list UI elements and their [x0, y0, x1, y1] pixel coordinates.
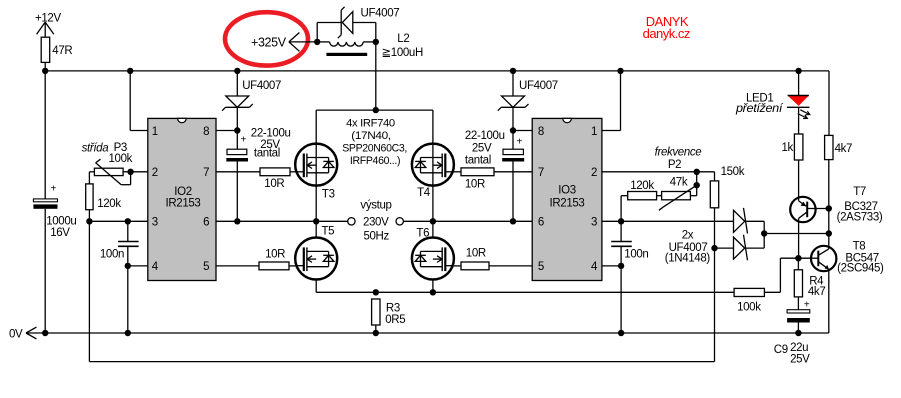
- svg-text:4: 4: [591, 261, 598, 273]
- node pin8-boot3: [510, 127, 516, 133]
- svg-text:T7: T7: [853, 186, 866, 198]
- node T3source-pin6: [313, 218, 319, 224]
- node bus-diode2: [234, 68, 240, 74]
- svg-text:8: 8: [538, 126, 544, 138]
- svg-text:T6: T6: [416, 228, 429, 240]
- resistor R3 0R5: [372, 299, 406, 326]
- svg-text:6: 6: [538, 217, 544, 229]
- wire bus to diode UF4007 (IO2 bootstrap): [236, 71, 238, 96]
- resistor 1k: [782, 134, 803, 160]
- LED1 label: [735, 92, 784, 115]
- node bus-io3pin1: [617, 68, 623, 74]
- wire T8 base row: [780, 257, 811, 259]
- node pin2-P2: [694, 169, 700, 175]
- svg-text:4: 4: [152, 261, 159, 273]
- svg-text:120k: 120k: [97, 198, 121, 210]
- svg-text:22u: 22u: [790, 342, 808, 354]
- wire IO2 pin2: [131, 171, 148, 173]
- svg-text:danyk.cz: danyk.cz: [643, 26, 690, 41]
- svg-text:+12V: +12V: [35, 12, 61, 24]
- resistor 10R (T3 gate): [260, 168, 290, 190]
- resistor 10R (T6 gate): [461, 247, 489, 269]
- inductor L2 100uH: [317, 33, 423, 59]
- capacitor 1000u 16V: [33, 184, 76, 240]
- svg-text:+: +: [51, 184, 57, 195]
- svg-text:+: +: [517, 137, 523, 148]
- return wire CT loop: [89, 221, 714, 361]
- T8 labels: [837, 241, 884, 275]
- svg-text:8: 8: [203, 126, 209, 138]
- wire diode to pin8: [512, 107, 514, 149]
- svg-text:1: 1: [152, 126, 158, 138]
- svg-text:přetížení: přetížení: [735, 103, 784, 115]
- resistor 47R: [41, 37, 72, 62]
- svg-text:7: 7: [538, 167, 544, 179]
- wire 10R to T5: [289, 265, 295, 267]
- node 325-left: [314, 39, 320, 45]
- wire bus to diode UF4007 (IO3 bootstrap): [512, 71, 514, 96]
- transistor T3 (IRF740): [295, 144, 337, 201]
- node bus-left: [42, 68, 48, 74]
- svg-text:1000u: 1000u: [46, 216, 76, 228]
- top +12V bus: [45, 70, 829, 72]
- svg-text:7: 7: [203, 167, 209, 179]
- node T7base-4k7: [826, 205, 832, 211]
- svg-text:+325V: +325V: [251, 36, 287, 50]
- diode 2x UF4007 bottom: [734, 235, 748, 261]
- output terminal left: [348, 218, 355, 225]
- wire R4 to C9: [797, 297, 799, 310]
- node 0V-1000u: [42, 330, 48, 336]
- wire up to flyback diode: [317, 23, 341, 42]
- svg-text:UF4007: UF4007: [361, 8, 400, 20]
- transistor T5 (IRF740): [295, 226, 337, 280]
- svg-text:100k: 100k: [737, 302, 761, 314]
- svg-text:22-100u: 22-100u: [251, 128, 291, 140]
- wire L2 node down to bridge rail: [375, 42, 377, 110]
- output terminal right: [396, 218, 433, 225]
- wire 10R to T6: [454, 265, 461, 267]
- svg-text:4k7: 4k7: [835, 143, 853, 155]
- node 325-right: [373, 39, 379, 45]
- resistor 100k (right): [734, 288, 764, 313]
- svg-text:výstup: výstup: [360, 200, 391, 212]
- svg-text:IO3: IO3: [558, 185, 576, 197]
- node diode-cathodes: [761, 230, 767, 236]
- resistor R4 4k7: [794, 270, 825, 298]
- wire bottom diode cathode to junction: [746, 234, 764, 249]
- op-amp IO3 IR2153 body: [532, 118, 602, 280]
- svg-text:100n: 100n: [100, 249, 124, 261]
- svg-text:L2: L2: [397, 33, 409, 45]
- svg-text:(2AS733): (2AS733): [837, 212, 883, 224]
- wire boot cap to pin6 row: [512, 162, 514, 222]
- wire IO2 pin7 to 10R: [216, 171, 260, 173]
- svg-text:P2: P2: [668, 159, 681, 171]
- node 120k-pin3: [86, 218, 92, 224]
- wire to bottom diode anode: [715, 247, 734, 249]
- svg-text:25V: 25V: [472, 142, 492, 154]
- node R3-top: [373, 289, 379, 295]
- transistor T4 (IRF740): [412, 144, 454, 199]
- resistor 4k7 (top right): [825, 135, 853, 159]
- node 0V-100n: [125, 330, 131, 336]
- wire 150k down to diode node: [714, 208, 716, 248]
- wire T3 drain-source column: [315, 110, 317, 238]
- diode UF4007 flyback (points left): [338, 7, 353, 38]
- node 0V-io3: [618, 330, 624, 336]
- vystup 230V 50Hz label: [360, 200, 391, 243]
- +325V terminal arrow: [289, 33, 317, 52]
- wire IO3 pin1 to bus: [602, 71, 621, 131]
- wire pin4 column to 0V: [620, 266, 622, 333]
- node bridge-top: [373, 107, 379, 113]
- svg-text:3: 3: [152, 217, 158, 229]
- 4x IRF740 label: [342, 118, 407, 168]
- wire T7 collector down: [798, 218, 800, 258]
- wire 10R to T4: [454, 171, 461, 173]
- LED1 pretizeni (red LED): [787, 96, 810, 119]
- wire LED to 1k: [798, 107, 800, 134]
- wire diode to pin8: [236, 107, 238, 149]
- svg-text:4k7: 4k7: [808, 286, 826, 298]
- resistor 120k (right): [628, 180, 657, 200]
- T7 labels: [837, 186, 883, 224]
- diode 2x UF4007 top: [734, 208, 748, 234]
- svg-text:10R: 10R: [264, 178, 284, 190]
- wire 120k to pin3 row: [88, 210, 90, 222]
- node 0V-R3: [373, 330, 379, 336]
- wire IO2 pin1 to bus: [130, 71, 148, 131]
- wire T4 drain-source column: [432, 110, 434, 238]
- svg-text:47k: 47k: [670, 176, 688, 188]
- svg-text:+: +: [241, 134, 247, 145]
- wire T5 source to bottom rail: [315, 279, 317, 292]
- node T4source-pin6: [430, 218, 436, 224]
- potentiometer P3 100k strida: [82, 142, 133, 185]
- wire top diode cathode to junction: [746, 221, 764, 233]
- svg-text:230V: 230V: [363, 216, 389, 228]
- wire bus to LED: [798, 71, 800, 96]
- node pin2-P3: [127, 169, 133, 175]
- svg-text:22-100u: 22-100u: [465, 130, 505, 142]
- svg-text:2: 2: [591, 167, 597, 179]
- capacitor C9 22u 25V: [774, 300, 810, 366]
- svg-text:1k: 1k: [782, 142, 794, 154]
- svg-text:3: 3: [591, 217, 597, 229]
- svg-text:IR2153: IR2153: [166, 197, 201, 209]
- wire 10R to T3: [290, 171, 295, 173]
- wire 120k-P2: [657, 195, 662, 197]
- node bus-io2pin1: [127, 68, 133, 74]
- svg-text:tantal: tantal: [254, 148, 280, 160]
- wire IO3 pin6 row: [433, 220, 532, 222]
- svg-text:100k: 100k: [109, 153, 133, 165]
- capacitor 100n (right): [611, 221, 648, 266]
- svg-text:C9: C9: [774, 344, 788, 356]
- node 100n-pin3: [125, 218, 131, 224]
- svg-text:2: 2: [152, 167, 158, 179]
- svg-text:R3: R3: [386, 302, 400, 314]
- svg-text:SPP20N60C3,: SPP20N60C3,: [342, 143, 407, 155]
- wire IO3 pin3 row to diode: [602, 220, 734, 222]
- wire IO3 pin2 row: [602, 172, 715, 181]
- svg-text:100n: 100n: [624, 248, 648, 260]
- svg-text:(17N40,: (17N40,: [351, 130, 391, 142]
- svg-text:5: 5: [203, 261, 209, 273]
- svg-text:0V: 0V: [9, 329, 23, 341]
- svg-text:T4: T4: [417, 187, 431, 199]
- svg-text:frekvence: frekvence: [655, 147, 702, 159]
- wire 1000u to 0V bus: [44, 209, 46, 333]
- svg-text:T8: T8: [853, 241, 866, 253]
- node T6source-rail: [430, 289, 436, 295]
- wire R3 to 0V: [375, 325, 377, 333]
- svg-text:střída: střída: [82, 142, 109, 154]
- capacitor 22-100u tantal (IO2): [226, 128, 290, 162]
- svg-text:IO2: IO2: [174, 186, 192, 198]
- wire 100k to T8 base: [764, 258, 780, 292]
- svg-text:tantal: tantal: [465, 155, 491, 167]
- svg-text:50Hz: 50Hz: [363, 230, 389, 242]
- node boot-pin6: [234, 218, 240, 224]
- wire IO2 pin3 row: [89, 220, 147, 222]
- wire 47R to top bus: [44, 62, 46, 71]
- node T8base: [795, 255, 801, 261]
- svg-text:10R: 10R: [465, 179, 485, 191]
- wire +12V column down to 1000u: [44, 71, 46, 199]
- resistor 120k (left): [86, 184, 122, 210]
- wire pin4 column to 0V: [127, 266, 129, 333]
- svg-text:10R: 10R: [466, 247, 486, 259]
- svg-text:4x IRF740: 4x IRF740: [346, 118, 395, 130]
- +12V supply arrow: [37, 22, 54, 37]
- capacitor 22-100u tantal (IO3): [465, 130, 524, 167]
- svg-text:10R: 10R: [265, 248, 285, 260]
- node 100n-pin4: [125, 263, 131, 269]
- svg-text:T5: T5: [322, 226, 335, 238]
- capacitor 100n (left): [100, 221, 139, 266]
- resistor 150k: [710, 166, 744, 208]
- transistor T6 (IRF740): [412, 228, 454, 280]
- op-amp IO2 IR2153 body: [148, 118, 216, 280]
- bridge top rail: [316, 109, 433, 111]
- diode UF4007 IO2 bootstrap: [222, 96, 253, 111]
- svg-text:16V: 16V: [50, 227, 70, 239]
- wire T8 base node to R4: [797, 258, 799, 270]
- svg-text:0R5: 0R5: [385, 314, 405, 326]
- wire T6 source to bottom rail: [432, 279, 434, 292]
- wire diode junction to right column: [764, 233, 829, 235]
- red highlight ellipse: [225, 12, 308, 65]
- 0V bus: [45, 332, 829, 334]
- svg-text:UF4007: UF4007: [519, 80, 558, 92]
- diode UF4007 IO3 bootstrap: [498, 96, 529, 111]
- wire IO2 pin6 row to bridge: [216, 220, 348, 222]
- svg-text:1: 1: [591, 126, 597, 138]
- svg-text:T3: T3: [322, 188, 335, 200]
- wire boot cap to pin6 row: [236, 162, 238, 222]
- wire IO2 pin8: [216, 130, 237, 132]
- node boot3-pin6: [510, 218, 516, 224]
- resistor 10R (T5 gate): [259, 248, 289, 269]
- svg-text:5: 5: [538, 261, 544, 273]
- DANYK logo text: [643, 14, 690, 41]
- node pin8-boot: [234, 127, 240, 133]
- wire 4k7 to T7 base node: [828, 160, 830, 234]
- resistor 10R (T4 gate): [461, 168, 494, 191]
- svg-text:≧100uH: ≧100uH: [382, 47, 423, 59]
- svg-text:25V: 25V: [790, 354, 810, 366]
- node diode-anode-bottom: [711, 245, 717, 251]
- wire bus corner to 4k7: [828, 71, 830, 135]
- svg-text:UF4007: UF4007: [242, 80, 281, 92]
- node 0V-C9: [795, 330, 801, 336]
- wire T8 emitter to 0V: [828, 269, 830, 333]
- wire IO2 pin5 to 10R: [216, 265, 259, 267]
- bridge bottom rail: [316, 291, 734, 293]
- svg-text:IRFP460...): IRFP460...): [350, 155, 400, 167]
- svg-text:150k: 150k: [721, 166, 745, 178]
- wire IO3 pin7 to 10R: [494, 171, 532, 173]
- node bus-diode3: [510, 68, 516, 74]
- transistor T8 BC547 (NPN): [811, 246, 836, 271]
- svg-text:IR2153: IR2153: [550, 197, 585, 209]
- svg-text:(2SC945): (2SC945): [837, 263, 884, 275]
- svg-text:47R: 47R: [52, 45, 72, 57]
- svg-text:6: 6: [203, 217, 209, 229]
- wire 1k to T7: [798, 160, 800, 201]
- wire diode to right node: [353, 23, 376, 42]
- wire P3 left to 120k: [89, 172, 94, 184]
- wire 120k left down to pin3 row: [621, 196, 628, 222]
- node right-column: [826, 230, 832, 236]
- wire IO3 pin8: [513, 130, 532, 132]
- node pin4-100n: [618, 263, 624, 269]
- svg-text:(1N4148): (1N4148): [665, 253, 711, 265]
- transistor T7 BC327 (PNP): [790, 197, 829, 222]
- wire IO2 pin4: [128, 265, 148, 267]
- potentiometer P2 47k frekvence: [655, 147, 702, 211]
- node bus-led: [795, 68, 801, 74]
- svg-text:2x: 2x: [682, 230, 694, 242]
- 2x UF4007 (1N4148) label: [665, 230, 711, 265]
- svg-text:120k: 120k: [630, 180, 654, 192]
- node pin3-120k: [618, 218, 624, 224]
- wire IO3 pin5 to 10R: [489, 265, 532, 267]
- svg-text:+: +: [804, 300, 810, 311]
- wire to T8 collector: [828, 234, 830, 249]
- 0V terminal arrow: [26, 327, 45, 339]
- wire IO3 pin4: [602, 265, 621, 267]
